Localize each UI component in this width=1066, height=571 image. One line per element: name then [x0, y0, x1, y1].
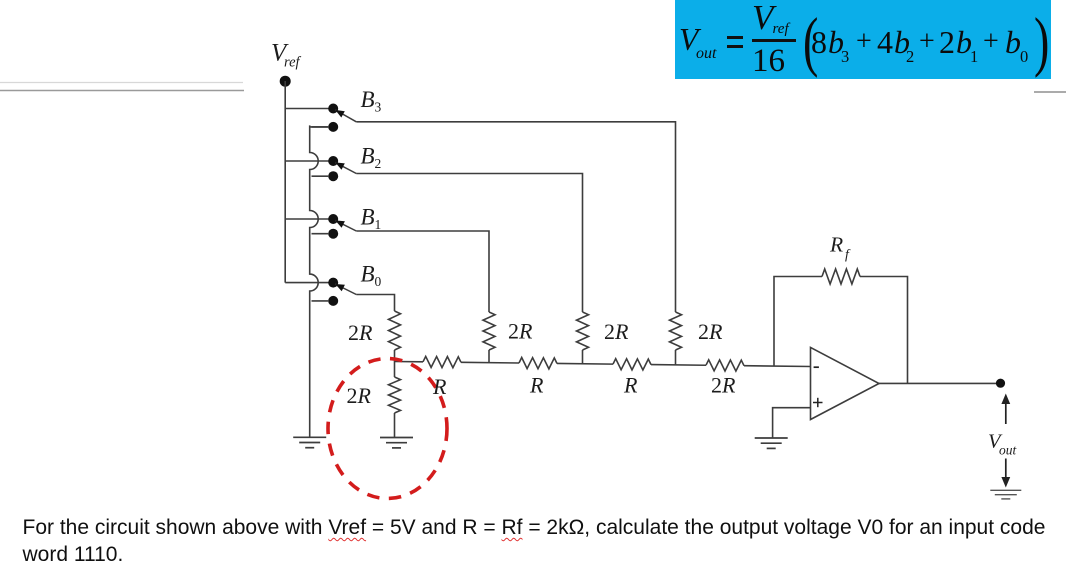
svg-text:f: f — [845, 248, 851, 263]
svg-text:2R: 2R — [347, 383, 372, 408]
svg-text:2R: 2R — [698, 319, 723, 344]
svg-text:0: 0 — [375, 274, 382, 289]
svg-text:3: 3 — [375, 100, 382, 115]
svg-text:B: B — [361, 144, 375, 169]
svg-text:2R: 2R — [348, 320, 373, 345]
svg-text:B: B — [361, 205, 375, 230]
svg-text:out: out — [999, 443, 1018, 458]
svg-text:R: R — [432, 374, 447, 399]
svg-text:B: B — [361, 87, 375, 112]
svg-text:2R: 2R — [508, 319, 533, 344]
svg-text:R: R — [529, 373, 544, 398]
svg-text:2R: 2R — [711, 373, 736, 398]
svg-text:B: B — [361, 261, 375, 286]
svg-text:R: R — [623, 373, 638, 398]
svg-text:2R: 2R — [604, 319, 629, 344]
svg-text:2: 2 — [375, 156, 382, 171]
svg-text:1: 1 — [375, 217, 382, 232]
svg-text:R: R — [829, 233, 843, 257]
svg-text:ref: ref — [284, 55, 302, 71]
